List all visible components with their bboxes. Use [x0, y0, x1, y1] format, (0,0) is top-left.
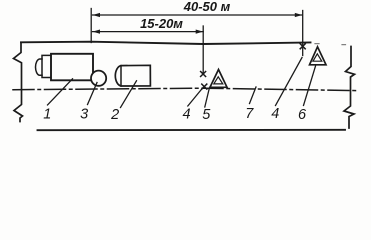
svg-text:5: 5 [202, 107, 211, 123]
svg-text:40-50 м: 40-50 м [183, 0, 231, 14]
svg-text:7: 7 [245, 106, 254, 122]
svg-text:6: 6 [298, 107, 307, 123]
svg-text:3: 3 [80, 107, 88, 123]
svg-text:4: 4 [183, 106, 191, 122]
svg-text:2: 2 [110, 107, 119, 123]
svg-text:15-20м: 15-20м [140, 16, 183, 31]
svg-text:4: 4 [271, 106, 279, 122]
svg-text:1: 1 [43, 107, 51, 123]
